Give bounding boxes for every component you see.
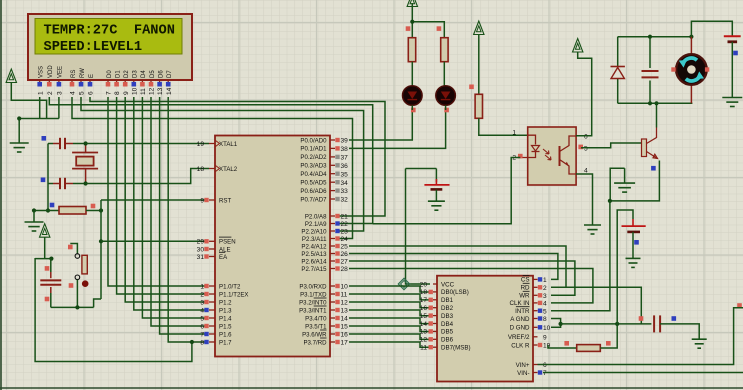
wire LCD VDD line to MCU P2.1 bbox=[49, 97, 372, 224]
ADC U2 pin 7 VIN- bbox=[517, 370, 547, 377]
ADC U2 pin 1 CS bbox=[521, 275, 547, 284]
svg-text:RD: RD bbox=[521, 285, 530, 292]
svg-text:2: 2 bbox=[47, 91, 54, 95]
wire MCU P3.2 to ADC DB2 bbox=[349, 302, 430, 308]
svg-text:5: 5 bbox=[584, 146, 588, 153]
svg-text:D2: D2 bbox=[124, 70, 130, 78]
wire PSEN line bbox=[101, 240, 208, 242]
svg-text:PSEN: PSEN bbox=[219, 239, 236, 246]
svg-text:VDD: VDD bbox=[48, 65, 54, 78]
svg-text:DB0(LSB): DB0(LSB) bbox=[441, 289, 469, 296]
resistor R2 bbox=[406, 26, 416, 86]
svg-text:DB1: DB1 bbox=[441, 297, 454, 304]
svg-text:17: 17 bbox=[341, 340, 349, 347]
ADC U2 pin 3 WR bbox=[519, 291, 547, 300]
svg-text:VSS: VSS bbox=[39, 66, 45, 78]
LCD pin 3 VEE bbox=[57, 66, 64, 95]
wire VREF battery net bbox=[617, 210, 633, 324]
svg-text:23: 23 bbox=[341, 229, 349, 236]
battery B2 bbox=[424, 169, 449, 202]
transistor Q1 bbox=[642, 128, 658, 159]
wire LCD D4 to MCU P1.4 bbox=[142, 97, 208, 318]
svg-text:4: 4 bbox=[200, 307, 204, 314]
wire LCD D5 to MCU P1.5 bbox=[151, 97, 208, 326]
svg-text:D6: D6 bbox=[158, 70, 164, 78]
ground symbol emitter bbox=[614, 168, 635, 192]
ADC U2 pin 18 DB0(LSB) bbox=[420, 289, 469, 296]
wire motor top rail bbox=[618, 35, 694, 39]
svg-text:34: 34 bbox=[341, 180, 349, 187]
wire VCC to R2 R3 tops bbox=[410, 20, 444, 38]
resistor R1 reset pulldown bbox=[32, 203, 103, 214]
wire MCU P3.3 to ADC DB3 bbox=[349, 310, 430, 316]
wire ADC RD to capacitor C5 node bbox=[551, 287, 641, 324]
LCD pin 11 D4 bbox=[140, 70, 147, 95]
svg-text:XTAL2: XTAL2 bbox=[219, 166, 238, 173]
optocoupler U3 phototransistor bbox=[560, 136, 577, 174]
battery B3 bbox=[622, 219, 646, 258]
svg-text:P0.6/AD6: P0.6/AD6 bbox=[300, 188, 327, 195]
MCU U1 pin 25 P2.4/A12 bbox=[301, 243, 348, 250]
MCU U1 pin 37 P0.2/AD2 bbox=[300, 154, 348, 161]
LCD pin 13 D6 bbox=[157, 70, 164, 95]
ADC U2 pin 8 A GND bbox=[510, 316, 547, 323]
wire ADC INTR up bbox=[551, 201, 610, 311]
svg-text:P2.1/A9: P2.1/A9 bbox=[305, 221, 327, 228]
svg-text:4: 4 bbox=[543, 301, 547, 308]
MCU U1 pin 29 PSEN bbox=[197, 237, 236, 246]
svg-text:31: 31 bbox=[197, 254, 205, 261]
svg-text:1: 1 bbox=[543, 277, 547, 284]
wire MCU P2.7 to ADC CLK IN bbox=[349, 269, 593, 303]
ADC U2 pin 19 CLK R bbox=[511, 342, 550, 349]
svg-text:A GND: A GND bbox=[510, 316, 530, 323]
wire MCU P2.4 to ADC RD bbox=[349, 246, 566, 287]
svg-text:32: 32 bbox=[341, 197, 349, 204]
ground symbol battery B1 bbox=[722, 98, 742, 107]
MCU U1 pin 14 P3.4/T0 bbox=[305, 315, 348, 322]
svg-text:7: 7 bbox=[543, 370, 547, 377]
wire LCD D7 to MCU P1.7 bbox=[168, 97, 208, 342]
svg-text:16: 16 bbox=[420, 305, 428, 312]
svg-text:6: 6 bbox=[88, 91, 95, 95]
svg-text:6: 6 bbox=[543, 362, 547, 369]
wire MCU P2.5 to ADC CS bbox=[349, 254, 558, 280]
MCU U1 pin 19 XTAL1 bbox=[197, 141, 238, 148]
svg-text:3: 3 bbox=[57, 91, 64, 95]
optocoupler U3 pin 1 bbox=[512, 130, 516, 137]
svg-text:7: 7 bbox=[200, 331, 204, 338]
wire MCU P3.7 to ADC DB7 bbox=[349, 342, 430, 347]
wire LCD D2 to MCU P1.2 bbox=[125, 97, 208, 302]
MCU U1 pin 22 P2.1/A9 bbox=[305, 221, 348, 228]
ADC U2 pin 15 DB3 bbox=[420, 313, 454, 320]
svg-text:12: 12 bbox=[149, 87, 156, 95]
wire rail to battery B1 bbox=[691, 21, 732, 37]
svg-text:VREF/2: VREF/2 bbox=[508, 334, 530, 341]
svg-text:13: 13 bbox=[157, 87, 164, 95]
wire LCD RW to MCU P2.2 bbox=[81, 97, 364, 231]
svg-text:D0: D0 bbox=[107, 70, 113, 78]
svg-text:6: 6 bbox=[584, 134, 588, 141]
MCU U1 pin 8 P1.7 bbox=[200, 339, 232, 346]
wire LCD VSS,VEE to ground bbox=[17, 97, 59, 121]
svg-text:19: 19 bbox=[197, 141, 205, 148]
MCU U1 pin 10 P3.0/RXD bbox=[299, 283, 348, 290]
svg-text:3: 3 bbox=[543, 293, 547, 300]
MCU U1 pin 13 P3.3/INT1 bbox=[299, 306, 348, 315]
wire XTAL2 to MCU pin 18 bbox=[86, 169, 209, 184]
LCD pin 8 D1 bbox=[114, 70, 121, 95]
MCU U1 pin 27 P2.6/A14 bbox=[301, 258, 348, 265]
svg-text:18: 18 bbox=[420, 289, 428, 296]
ADC U2 pin 20 VCC bbox=[420, 281, 455, 288]
wire MCU P3.5 to ADC DB5 bbox=[349, 326, 430, 332]
power symbol VCC opto pin6 bbox=[573, 39, 592, 136]
svg-text:P2.6/A14: P2.6/A14 bbox=[301, 258, 327, 265]
MCU U1 pin 7 P1.6 bbox=[200, 331, 232, 338]
svg-text:10: 10 bbox=[131, 87, 138, 95]
cursor marker bbox=[398, 278, 409, 289]
svg-text:VIN-: VIN- bbox=[517, 370, 529, 377]
svg-text:15: 15 bbox=[420, 313, 428, 320]
svg-text:16: 16 bbox=[341, 332, 349, 339]
svg-text:8: 8 bbox=[543, 316, 547, 323]
svg-text:17: 17 bbox=[420, 297, 428, 304]
wire MCU P3.6 to ADC DB6 bbox=[349, 334, 430, 339]
LCD pin 2 VDD bbox=[47, 65, 54, 95]
LCD pin 7 D0 bbox=[106, 70, 113, 95]
optocoupler U3 pin 6 bbox=[584, 134, 588, 141]
svg-text:P2.4/A12: P2.4/A12 bbox=[301, 243, 327, 250]
MCU U1 pin 26 P2.5/A13 bbox=[301, 251, 348, 258]
svg-text:DB7(MSB): DB7(MSB) bbox=[441, 345, 471, 352]
power symbol VCC left of LCD bbox=[6, 69, 47, 119]
svg-text:13: 13 bbox=[420, 329, 428, 336]
resistor R4 bbox=[469, 85, 528, 136]
MCU U1 pin 16 P3.6/WR bbox=[302, 330, 348, 339]
LCD pin 10 D3 bbox=[131, 70, 138, 95]
svg-text:P0.0/AD0: P0.0/AD0 bbox=[300, 137, 327, 144]
svg-text:1: 1 bbox=[512, 130, 516, 137]
svg-text:8: 8 bbox=[114, 91, 121, 95]
ADC U2 pin 16 DB2 bbox=[420, 305, 454, 312]
wire MCU P3.4 to ADC DB4 bbox=[349, 318, 430, 324]
capacitor C3 reset bbox=[40, 259, 61, 308]
capacitor C5 bbox=[639, 315, 700, 339]
MCU U1 pin 17 P3.7/RD bbox=[303, 338, 348, 347]
optocoupler U3 pin 2 bbox=[512, 154, 527, 162]
svg-text:P2.0/A8: P2.0/A8 bbox=[305, 213, 327, 220]
svg-text:10: 10 bbox=[543, 325, 551, 332]
wire LCD D0 to MCU P1.0 bbox=[108, 97, 208, 286]
svg-text:1: 1 bbox=[200, 283, 204, 290]
svg-text:P0.1/AD1: P0.1/AD1 bbox=[300, 146, 327, 153]
svg-text:11: 11 bbox=[341, 292, 348, 299]
svg-text:3: 3 bbox=[200, 299, 204, 306]
MCU U1 pin 1 P1.0/T2 bbox=[200, 283, 241, 290]
ADC U2 pin 4 CLK IN bbox=[510, 300, 547, 307]
ADC U2 pin 9 VREF/2 bbox=[508, 334, 547, 341]
svg-text:P3.7/RD: P3.7/RD bbox=[303, 339, 327, 346]
svg-text:9: 9 bbox=[543, 334, 547, 341]
wire LCD E to MCU P2.0 bbox=[90, 97, 385, 216]
svg-text:P2.3/A11: P2.3/A11 bbox=[302, 236, 327, 243]
ground symbol battery B2 bbox=[428, 201, 445, 210]
MCU U1 pin 6 P1.5 bbox=[200, 323, 232, 330]
LCD pin 4 RS bbox=[70, 70, 77, 95]
MCU U1 pin 5 P1.4 bbox=[200, 315, 232, 322]
svg-text:P3.4/T0: P3.4/T0 bbox=[305, 315, 327, 322]
svg-text:P3.5/T1: P3.5/T1 bbox=[305, 323, 327, 330]
svg-text:11: 11 bbox=[420, 345, 427, 352]
svg-text:12: 12 bbox=[341, 300, 349, 307]
power symbol VCC reset bbox=[40, 224, 50, 259]
svg-text:P0.3/AD3: P0.3/AD3 bbox=[300, 163, 327, 170]
svg-text:DB6: DB6 bbox=[441, 337, 454, 344]
svg-text:P1.0/T2: P1.0/T2 bbox=[219, 283, 241, 290]
svg-text:CLK R: CLK R bbox=[511, 342, 530, 349]
svg-text:VEE: VEE bbox=[58, 66, 64, 78]
ADC U2 pin 5 INTR bbox=[515, 307, 547, 316]
motor M1 bbox=[671, 37, 709, 104]
diode D1 freewheel bbox=[611, 37, 625, 104]
svg-text:P1.6: P1.6 bbox=[219, 331, 232, 338]
MCU U1 pin 15 P3.5/T1 bbox=[305, 323, 348, 330]
ADC U2 pin 10 D GND bbox=[510, 325, 551, 332]
svg-text:D1: D1 bbox=[115, 70, 121, 78]
wire XTAL1 to MCU pin 19 bbox=[86, 143, 209, 145]
MCU U1 pin 31 EA bbox=[197, 252, 228, 260]
svg-text:P0.5/AD5: P0.5/AD5 bbox=[300, 180, 327, 187]
wire LCD D3 to MCU P1.3 bbox=[134, 97, 208, 310]
svg-text:P1.1/T2EX: P1.1/T2EX bbox=[219, 291, 248, 298]
MCU U1 pin 21 P2.0/A8 bbox=[305, 213, 348, 220]
svg-text:CLK IN: CLK IN bbox=[510, 300, 530, 307]
wire MCU P0.0 to LED D2 bbox=[349, 110, 412, 140]
optocoupler U3 body bbox=[528, 127, 576, 185]
svg-text:P3.2/INT0: P3.2/INT0 bbox=[299, 299, 327, 306]
svg-text:5: 5 bbox=[79, 91, 86, 95]
power symbol VCC opto bbox=[474, 21, 484, 94]
svg-text:P1.7: P1.7 bbox=[219, 339, 232, 346]
ground symbol C5 bbox=[692, 339, 707, 348]
sheet border bottom edge bbox=[0, 387, 743, 389]
power symbol VCC LED supply bbox=[407, 0, 417, 22]
svg-text:RS: RS bbox=[71, 70, 77, 78]
LCD display LCD1 body bbox=[28, 14, 192, 80]
MCU U1 pin 18 XTAL2 bbox=[197, 166, 238, 173]
svg-text:38: 38 bbox=[341, 146, 349, 153]
MCU U1 pin 39 P0.0/AD0 bbox=[300, 137, 348, 144]
MCU U1 pin 32 P0.7/AD7 bbox=[300, 196, 348, 203]
LED D2 bbox=[403, 86, 423, 113]
svg-text:2: 2 bbox=[200, 291, 204, 298]
svg-text:P1.5: P1.5 bbox=[219, 323, 232, 330]
battery B1 top right bbox=[724, 36, 741, 97]
svg-text:30: 30 bbox=[197, 246, 205, 253]
MCU U1 pin 11 P3.1/TXD bbox=[300, 291, 348, 298]
MCU U1 pin 30 ALE bbox=[197, 246, 231, 253]
svg-text:RST: RST bbox=[219, 197, 231, 204]
svg-text:14: 14 bbox=[341, 316, 349, 323]
svg-text:DB2: DB2 bbox=[441, 305, 454, 312]
svg-text:10: 10 bbox=[341, 284, 349, 291]
svg-text:4: 4 bbox=[70, 91, 77, 95]
LCD pin 5 RW bbox=[79, 68, 86, 95]
svg-text:P1.3: P1.3 bbox=[219, 307, 232, 314]
optocoupler U3 internal LED bbox=[528, 135, 540, 157]
svg-text:DB5: DB5 bbox=[441, 329, 454, 336]
svg-text:EA: EA bbox=[219, 254, 228, 261]
svg-text:CS: CS bbox=[521, 277, 530, 284]
MCU U1 pin 34 P0.5/AD5 bbox=[300, 180, 348, 187]
svg-text:P3.0/RXD: P3.0/RXD bbox=[299, 283, 327, 290]
wire long left drop to bottom rail bbox=[35, 258, 194, 362]
optocoupler U3 light arrows bbox=[543, 149, 551, 160]
svg-text:P3.3/INT1: P3.3/INT1 bbox=[299, 307, 327, 314]
wire motor bottom rail bbox=[618, 101, 693, 105]
LCD pin 12 D5 bbox=[149, 70, 156, 95]
capacitor C1 bbox=[42, 136, 86, 149]
resistor R5 bbox=[564, 324, 617, 352]
wire CLK R to R5 bbox=[548, 345, 577, 348]
MCU U1 pin 4 P1.3 bbox=[200, 307, 232, 314]
wire LCD D6 to MCU P1.6 bbox=[160, 97, 208, 334]
svg-text:D5: D5 bbox=[150, 70, 156, 78]
wire transistor collector to motor rail bbox=[654, 101, 658, 127]
svg-text:28: 28 bbox=[341, 266, 349, 273]
svg-text:14: 14 bbox=[420, 321, 428, 328]
MCU U1 pin 12 P3.2/INT0 bbox=[299, 298, 348, 307]
svg-text:P2.5/A13: P2.5/A13 bbox=[301, 251, 327, 258]
MCU U1 pin 33 P0.6/AD6 bbox=[300, 188, 348, 195]
svg-text:39: 39 bbox=[341, 138, 349, 145]
svg-text:12: 12 bbox=[420, 337, 428, 344]
svg-text:1: 1 bbox=[37, 91, 44, 95]
svg-text:SPEED:LEVEL1: SPEED:LEVEL1 bbox=[44, 40, 143, 55]
svg-text:VCC: VCC bbox=[441, 281, 455, 288]
svg-text:33: 33 bbox=[341, 188, 349, 195]
wire reset node bottom bbox=[51, 299, 101, 310]
svg-text:21: 21 bbox=[341, 214, 349, 221]
ground symbol below LCD bbox=[10, 119, 29, 153]
wire MCU P2.6 to ADC WR bbox=[349, 261, 575, 295]
svg-text:WR: WR bbox=[519, 293, 530, 300]
svg-text:P3.1/TXD: P3.1/TXD bbox=[300, 291, 327, 298]
ADC U2 pin 13 DB5 bbox=[420, 329, 454, 336]
MCU U1 pin 24 P2.3/A11 bbox=[302, 236, 348, 243]
svg-text:5: 5 bbox=[200, 315, 204, 322]
microcontroller U1 80C51 body bbox=[215, 136, 330, 357]
capacitor C2 bbox=[41, 178, 86, 190]
ADC U2 pin 6 VIN+ bbox=[516, 362, 547, 369]
svg-text:11: 11 bbox=[140, 88, 147, 95]
svg-text:P2.2/A10: P2.2/A10 bbox=[301, 228, 327, 235]
wire transistor emitter to ground loop bbox=[608, 161, 660, 203]
svg-text:27: 27 bbox=[341, 259, 349, 266]
svg-text:9: 9 bbox=[123, 91, 130, 95]
svg-text:TEMPR:27C FANON: TEMPR:27C FANON bbox=[44, 24, 175, 39]
optocoupler U3 pin 4 bbox=[584, 168, 588, 175]
svg-text:36: 36 bbox=[341, 163, 349, 170]
MCU U1 pin 9 RST bbox=[200, 197, 231, 204]
wire ADC VIN+ input from right edge bbox=[538, 303, 743, 364]
wire MCU P3.1 to ADC DB1 bbox=[349, 294, 430, 300]
MCU U1 pin 35 P0.4/AD4 bbox=[300, 171, 348, 178]
wire ADC VIN- rail bbox=[543, 372, 743, 374]
ADC U2 pin 2 RD bbox=[521, 283, 547, 292]
ground symbol B3 bbox=[626, 258, 641, 267]
resistor R3 bbox=[437, 26, 449, 86]
svg-text:7: 7 bbox=[106, 91, 113, 95]
svg-text:P0.4/AD4: P0.4/AD4 bbox=[300, 171, 327, 178]
push button SW1 bbox=[68, 244, 88, 308]
wire RST to MCU pin 9 bbox=[101, 199, 208, 201]
wire ADC VCC net vertical bbox=[406, 169, 437, 285]
MCU U1 pin 3 P1.2 bbox=[200, 299, 232, 306]
MCU U1 pin 28 P2.7/A15 bbox=[301, 266, 348, 273]
svg-text:D7: D7 bbox=[167, 70, 173, 78]
optocoupler U3 pin 5 bbox=[578, 145, 588, 153]
svg-text:29: 29 bbox=[197, 239, 205, 246]
wire reset VCC node bbox=[35, 257, 53, 261]
wire opto pin2 to MCU P2.1 net bbox=[373, 158, 521, 224]
svg-text:13: 13 bbox=[341, 308, 349, 315]
svg-text:DB4: DB4 bbox=[441, 321, 454, 328]
ADC U2 pin 14 DB4 bbox=[420, 321, 454, 328]
LCD pin 1 VSS bbox=[37, 66, 44, 95]
svg-text:22: 22 bbox=[341, 221, 349, 228]
svg-text:P2.7/A15: P2.7/A15 bbox=[301, 266, 327, 273]
svg-text:24: 24 bbox=[341, 236, 349, 243]
svg-text:37: 37 bbox=[341, 155, 349, 162]
wire ADC A GND / D GND join bbox=[551, 319, 563, 328]
svg-text:35: 35 bbox=[341, 171, 349, 178]
svg-text:P3.6/WR: P3.6/WR bbox=[302, 331, 327, 338]
LCD pin 14 D7 bbox=[166, 70, 173, 95]
svg-text:D3: D3 bbox=[133, 70, 139, 78]
svg-text:P1.2: P1.2 bbox=[219, 299, 232, 306]
svg-text:P0.7/AD7: P0.7/AD7 bbox=[300, 196, 327, 203]
svg-text:26: 26 bbox=[341, 251, 349, 258]
wire capacitors to ground rail bbox=[46, 144, 50, 213]
ADC U2 ADC0804 body bbox=[437, 276, 533, 382]
capacitor C4 motor bbox=[642, 37, 659, 104]
wire opto pin5 to transistor base bbox=[581, 143, 642, 148]
wire MCU P3.0 to ADC DB0 bbox=[349, 286, 430, 292]
wire opto pin4 to ground bbox=[576, 174, 601, 234]
svg-text:P1.4: P1.4 bbox=[219, 315, 232, 322]
wire MCU P0.1 to LED D3 bbox=[349, 110, 446, 148]
svg-text:D4: D4 bbox=[141, 70, 147, 78]
svg-text:14: 14 bbox=[166, 87, 173, 95]
LCD screen showing TEMPR:27C FANON / SPEED:LEVEL1 bbox=[35, 19, 182, 56]
LCD pin 6 E bbox=[88, 74, 95, 95]
svg-text:2: 2 bbox=[543, 285, 547, 292]
ADC U2 pin 12 DB6 bbox=[420, 337, 454, 344]
svg-text:E: E bbox=[89, 74, 95, 78]
LCD pin 9 D2 bbox=[123, 70, 130, 95]
ADC U2 pin 17 DB1 bbox=[420, 297, 454, 304]
wire ground rail to capacitor C5 bbox=[561, 322, 652, 326]
MCU U1 pin 36 P0.3/AD3 bbox=[300, 163, 348, 170]
wire LCD RS to MCU P2.3 bbox=[72, 97, 353, 239]
svg-text:VIN+: VIN+ bbox=[516, 362, 530, 369]
svg-text:P0.2/AD2: P0.2/AD2 bbox=[300, 154, 327, 161]
wire LCD D1 to MCU P1.1 bbox=[117, 97, 208, 294]
MCU U1 pin 38 P0.1/AD1 bbox=[300, 146, 348, 153]
